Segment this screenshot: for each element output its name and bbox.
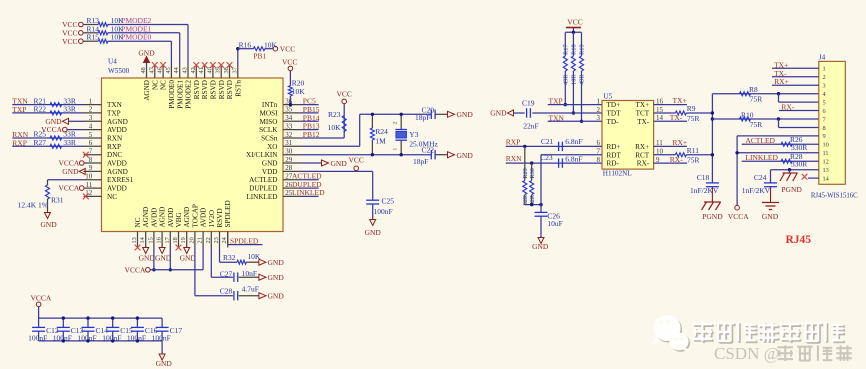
svg-text:AVDD: AVDD [107, 126, 127, 134]
svg-text:C25: C25 [382, 197, 395, 206]
svg-text:GND: GND [156, 359, 173, 368]
svg-text:RX+: RX+ [673, 138, 688, 147]
svg-text:330R: 330R [791, 160, 807, 169]
svg-text:45: 45 [165, 67, 172, 73]
svg-text:C18: C18 [697, 173, 710, 182]
svg-text:R24: R24 [375, 127, 388, 136]
svg-text:C23: C23 [540, 153, 553, 162]
svg-text:75R: 75R [687, 114, 700, 123]
svg-text:GND: GND [268, 258, 285, 267]
svg-text:13: 13 [823, 167, 829, 174]
svg-text:VCC: VCC [280, 45, 295, 54]
svg-text:U4: U4 [108, 58, 117, 66]
svg-text:TXP: TXP [107, 109, 121, 117]
svg-text:GND: GND [490, 109, 507, 118]
svg-text:EXRES1: EXRES1 [107, 176, 134, 184]
svg-text:R27: R27 [34, 138, 47, 147]
svg-text:C27: C27 [220, 270, 233, 279]
svg-text:33R: 33R [63, 105, 76, 114]
svg-text:13: 13 [131, 237, 138, 243]
svg-text:TD+: TD+ [607, 101, 621, 109]
svg-text:VCC: VCC [282, 57, 297, 66]
svg-text:34: 34 [285, 114, 293, 122]
svg-text:10: 10 [85, 173, 93, 181]
svg-text:R22: R22 [34, 105, 47, 114]
svg-text:3: 3 [89, 114, 93, 122]
svg-text:100nF: 100nF [374, 207, 393, 216]
svg-text:2: 2 [89, 106, 93, 114]
svg-text:4.7uF: 4.7uF [242, 285, 259, 294]
svg-text:MOSI: MOSI [260, 109, 279, 117]
svg-text:9: 9 [89, 164, 93, 172]
svg-text:18pF: 18pF [415, 113, 430, 122]
svg-text:C17: C17 [170, 326, 183, 335]
svg-text:MISO: MISO [260, 118, 278, 126]
svg-text:R19: R19 [579, 44, 586, 55]
svg-text:7: 7 [823, 116, 826, 123]
svg-text:29: 29 [285, 156, 293, 164]
svg-text:RX+: RX+ [774, 77, 789, 86]
svg-text:10K: 10K [292, 87, 306, 96]
svg-text:TX-: TX- [637, 118, 650, 126]
svg-text:TXN: TXN [107, 101, 123, 109]
svg-text:6.8nF: 6.8nF [565, 137, 582, 146]
svg-text:R11: R11 [687, 146, 699, 155]
svg-text:RJ45: RJ45 [786, 234, 812, 246]
svg-text:23: 23 [213, 237, 220, 243]
svg-text:GND: GND [762, 212, 779, 221]
svg-text:2: 2 [393, 122, 399, 125]
svg-text:31: 31 [285, 139, 293, 147]
svg-text:LINKLED: LINKLED [292, 188, 325, 197]
svg-text:41: 41 [198, 67, 205, 73]
svg-text:GND: GND [532, 242, 549, 251]
svg-text:10: 10 [823, 142, 829, 149]
svg-text:GND: GND [262, 160, 278, 168]
svg-text:10K: 10K [328, 123, 342, 132]
svg-text:AVDD: AVDD [167, 208, 175, 228]
svg-text:GND: GND [457, 110, 474, 119]
svg-text:H1102NL: H1102NL [603, 170, 632, 178]
svg-text:SCSn: SCSn [261, 135, 278, 143]
svg-text:10K: 10K [247, 252, 261, 261]
svg-text:GND: GND [40, 220, 57, 229]
svg-text:PB12: PB12 [303, 130, 320, 139]
svg-text:PMODE1: PMODE1 [176, 80, 184, 109]
svg-text:RD+: RD+ [607, 143, 621, 151]
svg-text:GND: GND [139, 253, 156, 262]
svg-text:15: 15 [147, 237, 154, 243]
svg-text:GND: GND [268, 291, 285, 300]
svg-text:330R: 330R [791, 143, 807, 152]
svg-text:LINKLED: LINKLED [246, 193, 277, 201]
svg-text:7: 7 [89, 148, 93, 156]
svg-text:33: 33 [285, 122, 293, 130]
svg-text:RSVD: RSVD [193, 80, 201, 99]
svg-text:AVDD: AVDD [150, 208, 158, 228]
svg-text:5: 5 [823, 99, 826, 106]
svg-text:PB1: PB1 [253, 52, 266, 61]
svg-text:R8: R8 [749, 85, 758, 94]
svg-text:VCC: VCC [336, 90, 351, 99]
svg-text:75R: 75R [750, 95, 763, 104]
svg-text:37: 37 [231, 67, 238, 73]
svg-text:49R: 49R [563, 74, 570, 85]
svg-text:VCC: VCC [567, 17, 582, 26]
svg-text:8: 8 [89, 156, 93, 164]
svg-text:PMODE0: PMODE0 [121, 33, 151, 42]
svg-text:1: 1 [393, 148, 399, 151]
svg-text:100nF: 100nF [28, 333, 47, 342]
svg-text:RX+: RX+ [635, 143, 649, 151]
svg-text:GND: GND [62, 167, 79, 176]
svg-text:14: 14 [139, 236, 146, 243]
svg-text:VCCA: VCCA [41, 125, 62, 134]
svg-text:11: 11 [86, 181, 93, 189]
svg-text:4: 4 [89, 122, 93, 130]
svg-text:16: 16 [156, 237, 163, 243]
svg-text:NC: NC [151, 80, 159, 90]
svg-text:GND: GND [138, 48, 155, 57]
svg-text:ACTLED: ACTLED [249, 176, 277, 184]
svg-text:C21: C21 [541, 137, 554, 146]
svg-text:INTn: INTn [262, 101, 278, 109]
svg-text:R30: R30 [529, 168, 536, 179]
svg-text:VCCA: VCCA [125, 266, 146, 275]
svg-text:RX-: RX- [637, 160, 650, 168]
svg-text:100nF: 100nF [102, 333, 121, 342]
svg-text:1V2O: 1V2O [208, 210, 216, 228]
svg-text:9: 9 [823, 133, 826, 140]
svg-text:RCT: RCT [635, 151, 650, 159]
svg-text:40: 40 [206, 67, 213, 73]
svg-text:U5: U5 [603, 93, 612, 101]
svg-text:38: 38 [223, 67, 230, 73]
svg-text:12.4K 1%: 12.4K 1% [18, 201, 48, 210]
svg-text:AGND: AGND [159, 207, 167, 228]
svg-text:RXP: RXP [506, 137, 521, 146]
svg-text:TDT: TDT [607, 110, 622, 118]
svg-text:TCT: TCT [636, 110, 650, 118]
svg-text:18: 18 [172, 237, 179, 243]
svg-text:C24: C24 [754, 173, 767, 182]
svg-text:PMODE0: PMODE0 [168, 80, 176, 109]
svg-text:46: 46 [157, 67, 164, 73]
svg-text:DUPLED: DUPLED [249, 185, 277, 193]
svg-text:AGND: AGND [107, 168, 128, 176]
svg-text:PGND: PGND [702, 212, 723, 221]
svg-text:NC: NC [160, 80, 168, 90]
svg-text:10uF: 10uF [547, 219, 562, 228]
svg-text:TXN: TXN [549, 113, 565, 122]
svg-text:RSVD: RSVD [218, 80, 226, 99]
svg-text:2: 2 [823, 74, 826, 81]
svg-text:10K: 10K [264, 40, 278, 49]
svg-text:VCCA: VCCA [728, 212, 749, 221]
svg-text:RXN: RXN [506, 154, 522, 163]
svg-text:10nF: 10nF [242, 269, 257, 278]
svg-text:GND: GND [331, 159, 348, 168]
svg-text:RJ45-WIS1516C: RJ45-WIS1516C [811, 193, 858, 200]
svg-text:33R: 33R [63, 138, 76, 147]
svg-text:RX-: RX- [781, 103, 794, 112]
svg-text:75R: 75R [750, 120, 763, 129]
svg-text:XO: XO [267, 143, 277, 151]
svg-text:49R: 49R [579, 74, 586, 85]
svg-text:R17: R17 [563, 44, 570, 55]
svg-text:SCLK: SCLK [259, 126, 278, 134]
svg-text:GND: GND [268, 273, 285, 282]
svg-text:RSVD: RSVD [210, 80, 218, 99]
svg-text:42: 42 [190, 67, 197, 73]
svg-text:32: 32 [285, 131, 293, 139]
svg-text:ACTLED: ACTLED [745, 136, 775, 145]
svg-text:CSDN @: CSDN @ [714, 344, 779, 363]
svg-text:TXP: TXP [549, 97, 563, 106]
svg-text:AGND: AGND [142, 207, 150, 228]
svg-text:22nF: 22nF [523, 121, 538, 130]
svg-text:TOCAP: TOCAP [191, 204, 199, 227]
svg-text:RSVD: RSVD [216, 208, 224, 227]
svg-text:100nF: 100nF [152, 333, 171, 342]
svg-text:GND: GND [180, 253, 197, 262]
svg-text:TX-: TX- [670, 113, 683, 122]
svg-text:NC: NC [134, 217, 142, 227]
svg-text:1: 1 [823, 66, 826, 73]
svg-text:11: 11 [823, 150, 829, 157]
svg-text:RSVD: RSVD [201, 80, 209, 99]
svg-text:TD-: TD- [607, 118, 620, 126]
svg-text:43: 43 [182, 67, 189, 73]
svg-text:SPDLED: SPDLED [224, 200, 232, 227]
svg-text:22: 22 [205, 237, 212, 243]
svg-text:VCC: VCC [348, 155, 363, 164]
svg-text:AGND: AGND [143, 80, 151, 101]
svg-text:R9: R9 [687, 104, 696, 113]
svg-text:RXP: RXP [107, 143, 121, 151]
svg-text:39: 39 [215, 67, 222, 73]
svg-text:1nF/2KV: 1nF/2KV [742, 186, 771, 195]
svg-text:J4: J4 [819, 53, 826, 61]
svg-text:35: 35 [285, 106, 293, 114]
svg-text:VDD: VDD [262, 168, 278, 176]
svg-text:21: 21 [197, 237, 204, 243]
svg-text:C28: C28 [220, 286, 233, 295]
svg-text:W5500: W5500 [108, 67, 130, 75]
svg-text:TXP: TXP [12, 105, 26, 114]
svg-text:TX+: TX+ [636, 101, 650, 109]
svg-text:R15: R15 [87, 33, 100, 42]
svg-text:PMODE2: PMODE2 [185, 80, 193, 109]
svg-text:1M: 1M [375, 136, 386, 145]
svg-text:GND: GND [365, 228, 382, 237]
svg-text:47: 47 [148, 67, 155, 73]
svg-text:100nF: 100nF [53, 333, 72, 342]
svg-text:R16: R16 [239, 40, 252, 49]
svg-text:3: 3 [823, 83, 826, 90]
svg-text:6: 6 [823, 108, 826, 115]
svg-text:NC: NC [107, 193, 117, 201]
svg-text:RD-: RD- [607, 160, 620, 168]
svg-text:AVDD: AVDD [107, 160, 127, 168]
svg-text:VBG: VBG [175, 212, 183, 227]
svg-text:RXP: RXP [12, 138, 27, 147]
svg-text:VCC: VCC [62, 37, 77, 46]
svg-text:GND: GND [155, 253, 172, 262]
svg-text:GND: GND [457, 151, 474, 160]
svg-text:44: 44 [173, 66, 180, 73]
svg-text:SPDLED: SPDLED [230, 236, 259, 245]
svg-text:LINKLED: LINKLED [745, 153, 778, 162]
svg-text:AVDD: AVDD [200, 208, 208, 228]
svg-text:17: 17 [164, 237, 171, 243]
svg-text:1nF/2KV: 1nF/2KV [690, 186, 719, 195]
svg-text:AGND: AGND [107, 118, 128, 126]
svg-text:XI/CLKIN: XI/CLKIN [246, 151, 278, 159]
svg-text:PGND: PGND [781, 185, 802, 194]
svg-text:5: 5 [89, 131, 93, 139]
svg-text:RDT: RDT [607, 151, 622, 159]
svg-text:18pF: 18pF [413, 157, 428, 166]
svg-text:100nF: 100nF [127, 333, 146, 342]
svg-text:8: 8 [823, 125, 826, 132]
svg-text:R23: R23 [328, 110, 341, 119]
svg-text:48: 48 [140, 67, 147, 73]
svg-text:100nF: 100nF [78, 333, 97, 342]
svg-text:30: 30 [285, 148, 293, 156]
svg-text:20: 20 [188, 237, 195, 243]
svg-text:R31: R31 [51, 196, 64, 205]
svg-text:AVDD: AVDD [107, 185, 127, 193]
svg-text:VCCA: VCCA [31, 294, 52, 303]
svg-text:R10: R10 [741, 110, 754, 119]
svg-text:R18: R18 [571, 44, 578, 55]
svg-text:R32: R32 [223, 253, 236, 262]
svg-text:6: 6 [89, 139, 93, 147]
svg-text:RX-: RX- [670, 155, 683, 164]
svg-text:19: 19 [180, 237, 187, 243]
svg-text:DNC: DNC [107, 151, 122, 159]
svg-text:AGND: AGND [183, 207, 191, 228]
svg-text:75R: 75R [687, 156, 700, 165]
svg-text:RXN: RXN [107, 135, 123, 143]
svg-text:10R: 10R [571, 74, 578, 85]
svg-text:6.8nF: 6.8nF [565, 154, 582, 163]
svg-text:12: 12 [823, 159, 829, 166]
svg-text:C22: C22 [422, 145, 435, 154]
svg-text:C19: C19 [522, 98, 535, 107]
svg-text:TX+: TX+ [673, 96, 687, 105]
svg-text:VCCA: VCCA [58, 184, 79, 193]
svg-text:RSTn: RSTn [234, 80, 242, 97]
svg-text:Y3: Y3 [409, 130, 418, 139]
svg-text:14: 14 [823, 175, 830, 182]
svg-text:RSVD: RSVD [226, 80, 234, 99]
svg-text:1: 1 [89, 97, 93, 105]
